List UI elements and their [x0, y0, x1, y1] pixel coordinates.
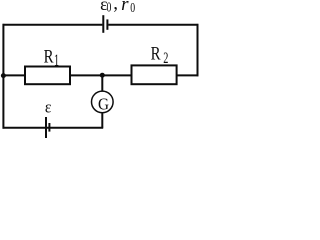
wire: galvanometer down to bottom side	[101, 113, 103, 128]
svg-text:0: 0	[107, 0, 112, 15]
wire: top side, right of battery	[108, 24, 198, 26]
wire: top side, left of battery	[3, 24, 103, 26]
battery E (cell): short plate	[48, 123, 50, 132]
wire: right side	[197, 24, 199, 76]
wire: node B down to galvanometer	[101, 75, 103, 90]
svg-text:1: 1	[54, 51, 59, 69]
svg-text:R: R	[44, 46, 55, 67]
battery E (cell): long plate	[45, 117, 47, 138]
wire: node A to R1	[3, 74, 25, 76]
node A: junction dot on left side	[1, 73, 6, 78]
svg-text:R: R	[151, 43, 162, 64]
svg-text:G: G	[98, 94, 109, 114]
wire: left side	[2, 24, 4, 129]
resistor R1 box	[25, 67, 70, 85]
svg-text:,: ,	[113, 0, 118, 14]
svg-text:ε: ε	[45, 99, 52, 116]
wire: R1 to node B	[70, 74, 132, 76]
svg-text:r: r	[121, 0, 129, 15]
wire: bottom side	[3, 127, 104, 129]
galvanometer G: circle	[92, 91, 114, 113]
svg-text:2: 2	[163, 49, 168, 67]
svg-text:0: 0	[130, 0, 135, 15]
node B: junction dot between R1 and R2	[100, 73, 105, 78]
resistor R2 box	[132, 65, 177, 84]
battery E0,r0: short plate	[106, 19, 108, 29]
battery E0,r0: long plate	[102, 15, 104, 33]
wire: R2 to right side	[177, 74, 199, 76]
